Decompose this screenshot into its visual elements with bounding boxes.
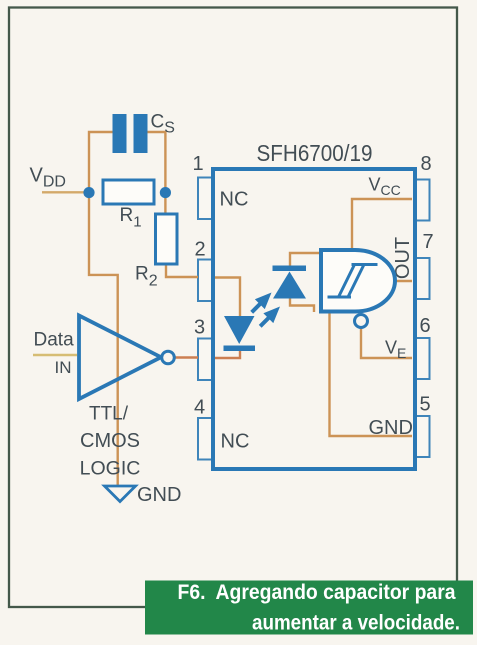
inverter U1 triangle: [79, 316, 161, 400]
node B junction dot: [160, 187, 171, 198]
svg-text:8: 8: [421, 153, 432, 175]
wire node A down to GND rail: [89, 196, 118, 485]
wire Data IN input: [33, 354, 77, 356]
photodiode D2 triangle: [273, 272, 306, 299]
light arrow 2: [255, 302, 285, 332]
pin body 5: [416, 416, 430, 457]
capacitor CS right plate: [134, 114, 148, 153]
wire gate top to VCC pin 8: [352, 199, 412, 249]
svg-text:TTL/: TTL/: [89, 404, 129, 425]
svg-text:aumentar a velocidade.: aumentar a velocidade.: [252, 612, 460, 635]
LED D1 emitter triangle: [224, 316, 255, 344]
svg-text:GND: GND: [137, 484, 181, 506]
wire VDD to node A: [42, 191, 86, 193]
svg-text:NC: NC: [221, 431, 250, 453]
svg-text:6: 6: [420, 315, 431, 337]
svg-text:CMOS: CMOS: [80, 430, 140, 452]
svg-text:2: 2: [195, 239, 206, 261]
schmitt hysteresis symbol: [328, 265, 378, 298]
resistor R2: [156, 214, 178, 264]
svg-text:4: 4: [194, 397, 205, 419]
wire photodiode cathode to gate input: [290, 253, 319, 266]
svg-text:NC: NC: [220, 189, 249, 211]
LED D1 cathode bar: [224, 346, 256, 352]
pin body 6: [416, 338, 430, 379]
svg-text:3: 3: [194, 317, 205, 339]
pin body 3: [198, 339, 214, 381]
svg-text:LOGIC: LOGIC: [80, 458, 141, 480]
svg-text:Data: Data: [34, 330, 75, 351]
pin body 1: [198, 178, 214, 220]
pin body 4: [198, 418, 214, 460]
wire pin 3 to LED cathode: [214, 350, 240, 358]
wire gate output to pin 7: [395, 280, 412, 282]
capacitor CS left plate: [113, 114, 127, 153]
schmitt gate U3 body: [321, 250, 395, 312]
resistor R1: [103, 180, 154, 204]
IC U2 body SFH6700/19: [213, 169, 415, 469]
photodiode D2 cathode bar: [273, 266, 307, 272]
svg-text:5: 5: [420, 394, 431, 416]
light arrow 1: [247, 288, 277, 318]
pin body 7: [416, 258, 430, 299]
wire inverter output to pin 3: [175, 356, 199, 358]
wire bubble to VE pin 6: [361, 328, 412, 359]
svg-text:SFH6700/19: SFH6700/19: [257, 140, 373, 166]
ground symbol: [105, 486, 136, 502]
wire R2 top: [164, 196, 166, 214]
wire gate bottom to GND pin 5: [330, 313, 413, 436]
svg-text:GND: GND: [369, 417, 413, 439]
wire photodiode anode to gate bottom: [290, 298, 314, 312]
svg-text:IN: IN: [55, 358, 72, 377]
node A junction dot: [83, 187, 94, 198]
wire pin 2 to LED anode: [214, 278, 240, 317]
svg-text:7: 7: [423, 231, 434, 253]
caption banner: [145, 581, 473, 635]
gate emitter bubble: [355, 315, 368, 328]
pin body 2: [198, 260, 214, 302]
wire capacitor branch left: [89, 132, 113, 193]
wire capacitor branch right: [148, 132, 166, 192]
pin body 8: [416, 180, 430, 221]
inverter output bubble: [162, 351, 175, 364]
wire R2 bottom to pin 2: [166, 264, 198, 277]
svg-text:F6. Agregando capacitor para: F6. Agregando capacitor para: [178, 581, 456, 604]
svg-text:1: 1: [193, 153, 204, 175]
